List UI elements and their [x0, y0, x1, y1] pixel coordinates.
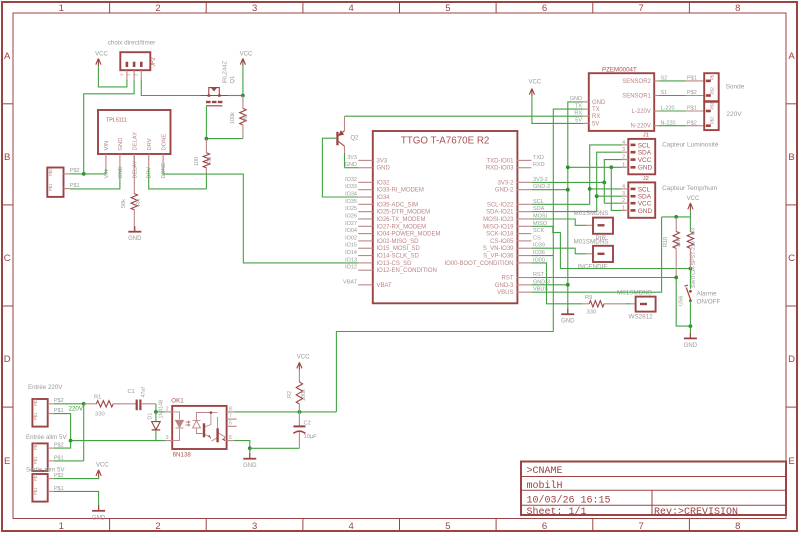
- wire switch bottom to gnd: [689, 301, 691, 326]
- connector J2: [628, 182, 655, 217]
- wire Q2 collector to GND pin: [344, 146, 346, 153]
- svg-text:IO14-SCLK_SD: IO14-SCLK_SD: [377, 254, 420, 260]
- svg-text:2: 2: [622, 155, 625, 161]
- svg-text:100k: 100k: [230, 112, 236, 124]
- wire OK1 pin5 to GND / C2 bottom: [234, 441, 250, 449]
- wire DONE net to IO13: [163, 169, 358, 263]
- frame column ticks: [109, 2, 111, 13]
- svg-text:GND: GND: [377, 166, 391, 172]
- ic U1 TTGO T-A7670E R2: [373, 131, 518, 303]
- svg-text:Sheet: 1/1: Sheet: 1/1: [527, 506, 587, 518]
- svg-text:CS-IO05: CS-IO05: [490, 239, 514, 245]
- svg-text:MISO-IO19: MISO-IO19: [483, 224, 514, 230]
- svg-text:330: 330: [95, 411, 105, 417]
- svg-text:IO26-TX_MODEM: IO26-TX_MODEM: [377, 217, 426, 223]
- wire J1 GND to J2 GND: [611, 167, 621, 210]
- svg-text:GND: GND: [638, 208, 653, 215]
- svg-text:IRLZ44Z: IRLZ44Z: [223, 60, 229, 83]
- svg-text:SCK: SCK: [533, 228, 545, 234]
- svg-text:P$1: P$1: [33, 412, 38, 420]
- svg-text:IO15: IO15: [345, 243, 357, 249]
- svg-text:GND: GND: [592, 100, 606, 106]
- svg-text:IO25: IO25: [345, 206, 357, 212]
- svg-text:10/03/26 16:15: 10/03/26 16:15: [527, 495, 611, 507]
- wire JP2 pin3 to Q1 gate line: [141, 80, 200, 96]
- ic TPL5111: [98, 110, 171, 154]
- TTGO left pins and labels: [358, 159, 373, 161]
- wire alim5V P$2 to opto pin3 node: [54, 441, 71, 449]
- svg-text:RST: RST: [502, 276, 514, 282]
- wire P$1 to GND: [54, 491, 99, 510]
- svg-text:IO04: IO04: [345, 228, 357, 234]
- svg-text:3V3: 3V3: [347, 155, 357, 161]
- power VCC (Q1 drain): [240, 59, 245, 67]
- svg-text:choix direct/timer: choix direct/timer: [108, 40, 156, 47]
- svg-text:IO14: IO14: [345, 250, 357, 256]
- svg-text:SDA-IO21: SDA-IO21: [486, 210, 514, 216]
- svg-text:3: 3: [166, 435, 169, 441]
- svg-text:330: 330: [587, 309, 597, 315]
- svg-text:VCC: VCC: [528, 80, 541, 86]
- svg-text:E: E: [4, 456, 10, 467]
- svg-text:IO12-EN_CONDITION: IO12-EN_CONDITION: [377, 268, 437, 274]
- svg-text:SCL: SCL: [638, 142, 651, 149]
- svg-text:IO15_MOSI_SD: IO15_MOSI_SD: [377, 246, 421, 252]
- resistor R9 330: [582, 303, 589, 305]
- svg-text:DONE: DONE: [161, 134, 167, 151]
- svg-text:IO12: IO12: [345, 265, 357, 271]
- svg-text:P$1: P$1: [48, 183, 53, 191]
- svg-text:P$2: P$2: [687, 90, 697, 96]
- svg-text:GND-2: GND-2: [495, 188, 514, 194]
- power VCC (R2): [297, 362, 302, 370]
- svg-text:TXD: TXD: [533, 155, 544, 161]
- svg-text:100k: 100k: [301, 389, 307, 401]
- svg-text:5: 5: [445, 3, 450, 14]
- svg-text:GND: GND: [561, 319, 575, 325]
- svg-text:R8: R8: [243, 115, 249, 122]
- svg-text:IO25-DTR_MODEM: IO25-DTR_MODEM: [377, 210, 431, 216]
- wire sensor VCC net (3V3-2): [531, 181, 604, 183]
- wire R9 to WS2812: [626, 303, 631, 305]
- wire MISO jog to alarm line: [531, 226, 690, 268]
- wire VCC to JP2 pin1: [98, 66, 127, 87]
- svg-text:1: 1: [59, 521, 64, 532]
- svg-text:7: 7: [638, 521, 643, 532]
- svg-text:2: 2: [166, 406, 169, 412]
- svg-text:P$1: P$1: [710, 72, 715, 80]
- svg-text:IO34: IO34: [377, 195, 391, 201]
- wire C1 to opto pin2: [155, 404, 157, 412]
- svg-text:M01SMDNS: M01SMDNS: [574, 239, 609, 246]
- svg-text:IO32: IO32: [345, 177, 357, 183]
- svg-text:IO35-ADC_SIM: IO35-ADC_SIM: [377, 202, 419, 208]
- svg-text:220V: 220V: [726, 111, 742, 118]
- svg-text:4: 4: [349, 521, 354, 532]
- connector Entree alim 5V: [32, 443, 47, 471]
- svg-text:M01SMDNS: M01SMDNS: [574, 210, 609, 217]
- svg-text:3: 3: [252, 3, 257, 14]
- svg-text:DRV: DRV: [147, 167, 153, 179]
- optocoupler OK1 6N138: [172, 406, 226, 449]
- svg-text:Q2: Q2: [351, 136, 360, 142]
- ground (rail): [567, 309, 569, 315]
- svg-text:8: 8: [229, 406, 232, 412]
- resistor R5 100: [205, 139, 207, 153]
- svg-text:TPL5111: TPL5111: [106, 118, 127, 124]
- capacitor C1 47nf: [136, 400, 138, 411]
- svg-text:L-220: L-220: [661, 106, 675, 112]
- svg-text:VCC: VCC: [638, 201, 652, 208]
- svg-text:6: 6: [229, 421, 232, 427]
- svg-text:IO32: IO32: [377, 180, 391, 186]
- wire MOSI to PIR: [531, 219, 586, 225]
- svg-text:IO04-POWER_MODEM: IO04-POWER_MODEM: [377, 232, 441, 238]
- svg-text:SCK-IO18: SCK-IO18: [486, 232, 514, 238]
- svg-text:D: D: [788, 354, 795, 365]
- svg-text:VCC: VCC: [95, 52, 108, 58]
- wire Q2 emitter to RX line: [344, 116, 346, 131]
- connector J1: [628, 139, 655, 174]
- svg-text:P$2: P$2: [33, 473, 38, 481]
- svg-text:P$1: P$1: [687, 106, 697, 112]
- svg-text:R5: R5: [207, 157, 213, 164]
- diode D1 1N4148: [155, 412, 157, 421]
- svg-text:PZEM0004T: PZEM0004T: [602, 66, 637, 73]
- svg-text:2: 2: [155, 521, 160, 532]
- wire R5 bottom to DRV line: [205, 174, 207, 189]
- svg-text:SCL: SCL: [638, 186, 651, 193]
- transistor Q1 IRLZ44Z mosfet: [200, 88, 228, 96]
- ic PZEM0004T: [589, 73, 654, 131]
- svg-text:P$2: P$2: [710, 116, 715, 124]
- svg-text:IO13-CS_SD: IO13-CS_SD: [377, 261, 413, 267]
- connector 220V out: [704, 102, 719, 130]
- svg-text:P$2: P$2: [48, 168, 53, 176]
- switch US6 Alarme ON/OFF: [689, 269, 691, 289]
- TTGO right pins and labels: [517, 159, 532, 161]
- svg-text:GND: GND: [570, 96, 582, 102]
- svg-text:5: 5: [229, 435, 232, 441]
- svg-text:GND: GND: [118, 138, 124, 151]
- svg-text:N-220: N-220: [661, 120, 676, 126]
- svg-text:IO27: IO27: [345, 221, 357, 227]
- svg-text:GND: GND: [638, 165, 653, 172]
- wire R10 bottom down to switch bottom: [676, 278, 690, 327]
- svg-text:Entrée 220V: Entrée 220V: [28, 384, 63, 391]
- svg-text:A: A: [4, 51, 11, 62]
- svg-text:IO13: IO13: [345, 257, 357, 263]
- svg-text:Q1: Q1: [230, 76, 236, 84]
- transistor Q2: [336, 132, 338, 146]
- svg-text:5V: 5V: [592, 121, 599, 127]
- svg-text:100: 100: [194, 157, 200, 166]
- power VCC (PZEM 5V): [529, 89, 534, 97]
- svg-text:3: 3: [622, 147, 625, 153]
- svg-text:3: 3: [622, 191, 625, 197]
- svg-text:2: 2: [155, 3, 160, 14]
- resistor R10 10K: [675, 217, 677, 232]
- svg-text:B: B: [788, 152, 794, 163]
- svg-text:US6: US6: [679, 296, 685, 306]
- svg-text:10K: 10K: [676, 237, 682, 247]
- wire OK1 pin8 net to R2/C2 and IO36 riser: [234, 411, 337, 413]
- svg-text:Rev:>CREVISION: Rev:>CREVISION: [654, 507, 738, 518]
- svg-text:VBAT: VBAT: [377, 283, 393, 289]
- svg-text:JP2: JP2: [151, 57, 157, 66]
- svg-text:6: 6: [542, 3, 547, 14]
- svg-text:E: E: [788, 456, 794, 467]
- frame row ticks: [2, 103, 13, 105]
- svg-text:3: 3: [252, 521, 257, 532]
- svg-text:3V3: 3V3: [377, 158, 388, 164]
- wire RST line to R10 bottom: [531, 277, 676, 279]
- wire J1 GND row: [568, 166, 622, 168]
- svg-text:INCENDIE: INCENDIE: [578, 263, 608, 270]
- resistor R8 100k: [242, 96, 244, 109]
- svg-text:VCC: VCC: [297, 354, 310, 360]
- svg-text:R4: R4: [136, 199, 142, 206]
- wire PZEM GND down (main gnd rail): [568, 102, 583, 313]
- svg-text:4: 4: [622, 184, 625, 190]
- svg-text:S_VP-IO36: S_VP-IO36: [483, 254, 514, 260]
- svg-text:IO33: IO33: [345, 184, 357, 190]
- wire IO36 to OK1 riser: [531, 255, 553, 257]
- wire SDA net: [531, 152, 621, 211]
- wire Q2 base to IO34: [322, 138, 358, 197]
- svg-text:GND: GND: [118, 166, 124, 178]
- svg-text:L-220V: L-220V: [632, 109, 651, 115]
- svg-text:B: B: [4, 152, 10, 163]
- svg-text:SCL-IO22: SCL-IO22: [487, 202, 514, 208]
- svg-text:IO02-MISO_SD: IO02-MISO_SD: [377, 239, 420, 245]
- wire VCC to Q1 drain: [242, 66, 244, 96]
- svg-text:1: 1: [59, 3, 64, 14]
- svg-text:220V: 220V: [69, 406, 84, 413]
- svg-text:8: 8: [735, 3, 740, 14]
- connector Sonde: [704, 73, 719, 101]
- OK1 internal LED and transistors: [172, 412, 226, 441]
- svg-text:MOSI-IO23: MOSI-IO23: [483, 217, 514, 223]
- wire VIN net: [84, 169, 106, 174]
- svg-text:IO00-BOOT_CONDITION: IO00-BOOT_CONDITION: [444, 261, 513, 267]
- svg-text:DELAY: DELAY: [132, 161, 138, 179]
- svg-text:OK1: OK1: [171, 397, 184, 404]
- svg-text:R2: R2: [287, 391, 293, 398]
- svg-text:47nf: 47nf: [141, 387, 147, 398]
- capacitor C2 10uF: [298, 412, 300, 427]
- svg-text:5: 5: [445, 521, 450, 532]
- svg-text:>CNAME: >CNAME: [527, 466, 563, 477]
- wire P$1 to opto pin3 node: [54, 414, 71, 441]
- ground (sortie 5V): [98, 505, 100, 511]
- svg-text:IO33-RI_MODEM: IO33-RI_MODEM: [377, 188, 424, 194]
- svg-text:2: 2: [622, 198, 625, 204]
- svg-text:N-220V: N-220V: [631, 124, 651, 130]
- svg-text:VCC: VCC: [96, 463, 109, 469]
- wire IO00 to R9/WS2812: [531, 263, 582, 304]
- svg-text:10µF: 10µF: [304, 434, 318, 440]
- svg-text:P$2: P$2: [710, 86, 715, 94]
- svg-text:P$2: P$2: [70, 168, 80, 174]
- svg-text:VCC: VCC: [638, 157, 652, 164]
- svg-text:A: A: [788, 51, 795, 62]
- svg-text:1N4148: 1N4148: [159, 400, 165, 419]
- wire Q1 drain node: [228, 95, 243, 97]
- resistor R4 56k + pin DELAY lead: [133, 154, 135, 194]
- svg-text:TXD-IO01: TXD-IO01: [486, 158, 514, 164]
- wire alim5V P$1 from 220V vertical: [54, 460, 84, 462]
- svg-text:Alarme: Alarme: [697, 291, 717, 298]
- svg-text:SDA: SDA: [638, 194, 652, 201]
- svg-text:IO35: IO35: [345, 199, 357, 205]
- wire 220V P$2 down to alim5V P$1: [83, 404, 85, 461]
- svg-text:VBAT: VBAT: [343, 279, 358, 285]
- svg-text:J1: J1: [643, 133, 649, 139]
- svg-text:1: 1: [622, 205, 625, 211]
- svg-text:SENSOR1: SENSOR1: [622, 94, 651, 100]
- wire VBUS to rail riser: [531, 217, 661, 292]
- svg-text:TX: TX: [592, 107, 600, 113]
- wire pullup rail: [662, 216, 691, 218]
- resistor R2 100k: [298, 369, 300, 382]
- wire IO39 to INCENDIE: [531, 248, 586, 254]
- svg-text:DRV: DRV: [147, 138, 153, 150]
- svg-text:P$1: P$1: [33, 487, 38, 495]
- svg-text:P$2: P$2: [33, 398, 38, 406]
- svg-text:C: C: [4, 253, 11, 264]
- svg-text:P$2: P$2: [687, 120, 697, 126]
- wire riser to IO36 line: [336, 332, 553, 412]
- svg-text:Entrée alim 5V: Entrée alim 5V: [26, 434, 67, 441]
- wire SCL net: [531, 145, 621, 204]
- svg-text:S_VN-IO39: S_VN-IO39: [483, 246, 514, 252]
- svg-text:6: 6: [542, 521, 547, 532]
- svg-text:1: 1: [622, 162, 625, 168]
- ground (OK1): [249, 448, 251, 458]
- connector P left (choix): [47, 168, 63, 197]
- svg-text:P$1: P$1: [687, 76, 697, 82]
- svg-text:IO27-RX_MODEM: IO27-RX_MODEM: [377, 224, 427, 230]
- svg-text:DONE: DONE: [161, 162, 167, 178]
- svg-text:R10: R10: [663, 237, 669, 247]
- svg-text:TX: TX: [575, 103, 582, 109]
- svg-text:Capteur Luminosité: Capteur Luminosité: [662, 142, 719, 149]
- svg-text:GND: GND: [243, 463, 257, 469]
- svg-text:IO26: IO26: [345, 213, 357, 219]
- svg-text:56k: 56k: [121, 199, 127, 208]
- svg-text:RX: RX: [574, 110, 582, 116]
- svg-text:S2: S2: [661, 76, 668, 82]
- connector Sortie alim 5V: [32, 474, 47, 502]
- svg-text:ON/OFF: ON/OFF: [697, 299, 721, 306]
- svg-text:GND: GND: [684, 343, 698, 349]
- svg-text:7: 7: [638, 3, 643, 14]
- svg-text:VCC: VCC: [687, 196, 700, 202]
- svg-text:8: 8: [735, 521, 740, 532]
- svg-text:R1: R1: [94, 394, 101, 400]
- svg-text:J2: J2: [643, 176, 649, 182]
- svg-text:C: C: [788, 253, 795, 264]
- wire Q1 source to R8 bottom node: [205, 106, 207, 139]
- svg-text:Sonde: Sonde: [726, 84, 745, 91]
- svg-text:GND-3: GND-3: [495, 283, 514, 289]
- svg-text:WS2812: WS2812: [629, 314, 654, 321]
- svg-text:4: 4: [349, 3, 354, 14]
- wire GND-2 to rail: [531, 189, 567, 191]
- svg-text:GND: GND: [92, 515, 106, 521]
- svg-text:CS: CS: [533, 235, 541, 241]
- wire DRV net: [149, 169, 207, 189]
- svg-text:VIN: VIN: [104, 141, 110, 151]
- svg-text:SDA: SDA: [638, 150, 652, 157]
- ground (alarm): [689, 333, 691, 339]
- svg-text:VBUS: VBUS: [497, 290, 513, 296]
- wire 220V P$2 to R1: [54, 403, 84, 405]
- wire GND(TPL) to P$1: [70, 169, 120, 189]
- ground (R4): [134, 226, 136, 232]
- resistor R1 330: [84, 403, 97, 405]
- power VCC (JP2): [96, 59, 101, 67]
- svg-text:GND: GND: [128, 236, 142, 242]
- svg-text:5V: 5V: [575, 118, 582, 124]
- svg-text:S1: S1: [661, 90, 668, 96]
- wire P$2 to VCC: [54, 477, 99, 479]
- svg-text:C1: C1: [128, 389, 135, 395]
- wire PZEM TX down to IO36 riser: [553, 109, 583, 331]
- svg-text:SENSOR2: SENSOR2: [622, 79, 651, 85]
- wire VCC down to pullup rail: [689, 211, 691, 232]
- svg-text:IO02: IO02: [345, 235, 357, 241]
- svg-text:VCC: VCC: [240, 52, 253, 58]
- wire P$2 to VIN node: [70, 173, 84, 175]
- svg-text:D1: D1: [148, 413, 154, 420]
- svg-text:RXD: RXD: [533, 162, 545, 168]
- power VCC (alarm): [688, 203, 693, 211]
- svg-text:SWITCH-SPST-21V: SWITCH-SPST-21V: [691, 240, 697, 288]
- wire PZEM RX net long horizontal: [345, 115, 584, 117]
- svg-text:P$1: P$1: [710, 101, 715, 109]
- svg-text:TTGO T-A7670E R2: TTGO T-A7670E R2: [401, 136, 490, 147]
- svg-text:4: 4: [622, 140, 625, 146]
- svg-text:7: 7: [229, 414, 232, 420]
- wire VCC to 5V pin: [532, 96, 583, 123]
- connector JP2: [120, 52, 150, 70]
- svg-text:RXD-IO03: RXD-IO03: [486, 166, 514, 172]
- power VCC (sortie 5V): [96, 470, 101, 478]
- svg-text:RX: RX: [592, 114, 600, 120]
- svg-text:H3: H3: [691, 228, 697, 235]
- svg-text:D: D: [4, 354, 11, 365]
- svg-text:mobilH: mobilH: [527, 480, 563, 492]
- svg-text:M01SMDNS: M01SMDNS: [617, 289, 652, 296]
- svg-text:P$2: P$2: [33, 442, 38, 450]
- svg-text:C2: C2: [304, 421, 311, 427]
- wire opto pin3 line: [71, 440, 165, 442]
- svg-text:R9: R9: [585, 295, 592, 301]
- wire GND-3 to rail: [531, 284, 567, 286]
- resistor H3: [687, 232, 693, 249]
- svg-text:P$1: P$1: [70, 183, 80, 189]
- svg-text:P$1: P$1: [33, 456, 38, 464]
- svg-text:DELAY: DELAY: [133, 132, 139, 151]
- svg-text:6N138: 6N138: [173, 451, 192, 458]
- svg-text:3V3-2: 3V3-2: [497, 180, 514, 186]
- wire JP2 pin2 to VIN net: [84, 80, 134, 174]
- connector Entree 220V: [32, 399, 47, 427]
- svg-text:Capteur Temp/hum: Capteur Temp/hum: [662, 185, 717, 192]
- title block: [521, 462, 786, 516]
